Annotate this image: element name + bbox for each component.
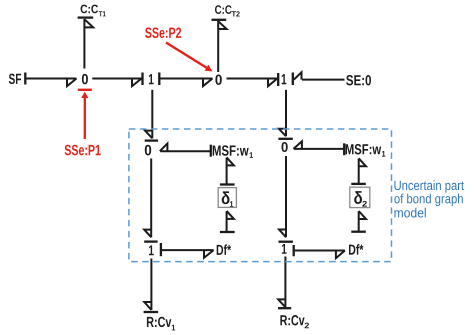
causal stroke at 1c top (144, 240, 157, 242)
half-arrow harpoon toward Df2 (336, 251, 345, 259)
causal stroke at 1b right (292, 73, 294, 86)
node 1c junction (149, 245, 154, 255)
half-arrow harpoon Df2 to delta2 (359, 211, 366, 219)
wire bond SE to 1b (302, 79, 345, 81)
causal stroke at 1a left (141, 73, 143, 86)
node 1d junction (282, 244, 287, 254)
causal stroke at MSF2 (343, 143, 345, 155)
node 0b junction (215, 74, 221, 85)
causal stroke at 1d top (279, 241, 293, 243)
source label SE:0 (346, 75, 371, 85)
half-arrow harpoon Df1 to delta1 (227, 211, 234, 219)
source label SSe:P1 (65, 145, 101, 156)
box delta1 (218, 188, 236, 208)
half-arrow harpoon at C:CT2 end (218, 21, 226, 29)
wire bond MSF2 to 0d (294, 148, 344, 150)
causal stroke at RCv2 (278, 307, 291, 309)
wire bond 1a down to 0c (151, 90, 153, 139)
modulation box delta1 label (222, 191, 234, 206)
resistor label R:Cv1 (147, 317, 175, 331)
wire signal delta1 to MSF1 (226, 158, 228, 184)
causal stroke at 1d right (293, 245, 295, 256)
causal stroke at C:CT2 (212, 19, 227, 21)
half-arrow harpoon toward 0b (203, 79, 213, 87)
causal stroke at delta2 top (351, 183, 366, 185)
wire bond 0b to 1b (227, 78, 278, 80)
causal stroke at 1a right (158, 73, 160, 86)
red causal stroke of SSe:P1 bond (78, 89, 92, 91)
wire bond 0a to C:CT1 (83, 19, 85, 69)
node 0d junction (282, 142, 288, 152)
half-arrow harpoon toward 0c (145, 131, 152, 139)
half-arrow harpoon toward 1a (132, 79, 142, 87)
wire bond 0d to 1d (285, 156, 287, 237)
half-arrow harpoon toward 1d (279, 230, 286, 238)
causal stroke at Df2 top (351, 231, 366, 233)
wire bond 1b down to 0d (285, 90, 287, 136)
wire signal delta2 to MSF2 (358, 159, 360, 184)
half-arrow harpoon toward RCv2 (278, 299, 285, 307)
source label MSF:w1 left (213, 145, 253, 158)
wire bond 1d down to RCv2 (284, 257, 286, 308)
wire bond 0b to C:CT2 (217, 21, 219, 72)
source label SSe:P2 (145, 27, 181, 38)
half-arrow harpoon toward 0a (67, 79, 77, 87)
red arrow SSe:P1 to node 0a (81, 92, 88, 139)
wire bond 0a to 1a (92, 78, 141, 80)
causal stroke at 1c right (160, 243, 162, 256)
half-arrow harpoon toward RCv1 (144, 302, 151, 310)
causal stroke at 0d top (278, 138, 292, 140)
node 0c junction (145, 145, 151, 156)
causal stroke at C:CT1 (78, 16, 94, 18)
node 1a junction (149, 74, 154, 84)
capacitor label C:CT1 (81, 5, 106, 17)
causal stroke at 1b left (277, 73, 279, 86)
box delta2 (350, 187, 370, 207)
modulation box delta2 label (354, 191, 367, 206)
causal stroke at Df1 top (220, 231, 235, 233)
wire bond 1d to Df2 (295, 250, 345, 252)
causal stroke at SF (24, 73, 26, 85)
annotation uncertain part line3 (394, 208, 425, 218)
half-arrow harpoon toward Df1 (204, 250, 214, 258)
red arrow SSe:P2 to node 0b (166, 43, 212, 72)
resistor label R:Cv2 (280, 315, 309, 328)
half-arrow harpoon delta2 to MSF2 (359, 158, 366, 166)
capacitor label C:CT2 (215, 5, 240, 16)
source label SF (9, 74, 21, 84)
half-arrow harpoon delta1 to MSF1 (227, 157, 234, 165)
causal stroke at RCv1 (144, 311, 159, 313)
half-arrow harpoon toward 1b from SE (294, 72, 302, 79)
half-arrow harpoon toward 0c from MSF1 (160, 144, 168, 152)
dashed uncertainty box (129, 129, 392, 262)
wire bond 1a to 0b (160, 78, 212, 80)
wire bond 1c to Df1 (162, 249, 214, 251)
wire bond SF to 0a (26, 78, 76, 80)
annotation uncertain part line1 (394, 180, 464, 192)
annotation uncertain part line2 (394, 194, 462, 206)
half-arrow harpoon toward 1c (144, 230, 151, 238)
wire bond MSF1 to 0c (160, 150, 210, 152)
half-arrow harpoon toward 1b (268, 79, 277, 87)
wire bond 1c down to RCv1 (150, 259, 152, 311)
wire bond 0c to 1c (150, 159, 152, 238)
half-arrow harpoon at C:CT1 end (84, 19, 93, 27)
wire signal Df2 to delta2 (358, 211, 360, 231)
detector label Df* left (217, 244, 231, 255)
half-arrow harpoon toward 0d from MSF2 (293, 141, 302, 149)
node 1b junction (282, 74, 287, 84)
half-arrow harpoon toward 0d (279, 129, 286, 136)
causal stroke at MSF1 (210, 145, 212, 157)
wire signal Df1 to delta1 (226, 211, 228, 231)
causal stroke at delta1 top (220, 183, 235, 185)
causal stroke at 0c top (145, 139, 158, 141)
detector label Df* right (349, 244, 363, 255)
node 0a junction (82, 74, 88, 85)
source label MSF:w1 right (346, 144, 386, 157)
